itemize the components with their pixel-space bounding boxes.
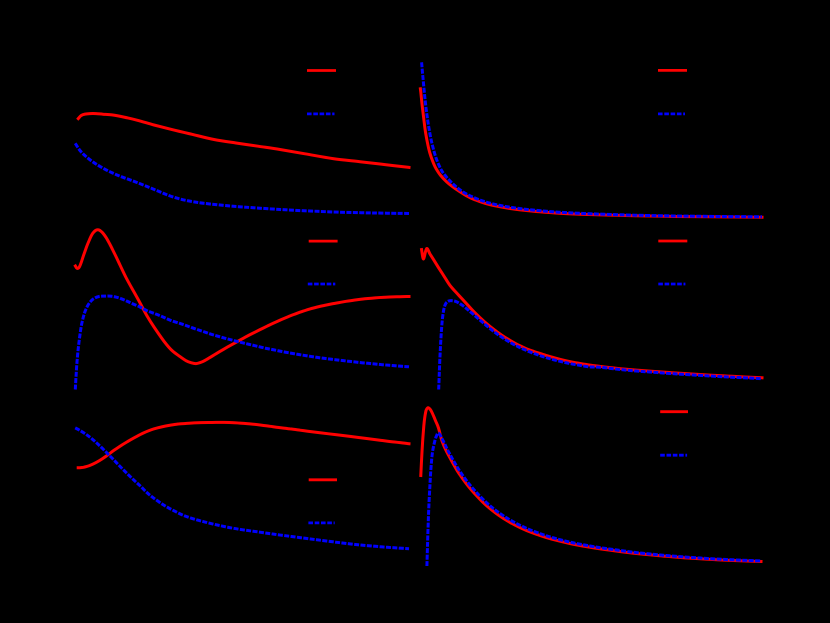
subplot (2,1) red curve [75,230,409,364]
subplot (2,1) legend blue line [308,283,336,286]
subplot (1,2) red curve [420,89,762,217]
subplot (1,1) blue curve [75,143,409,213]
subplot (1,1) red curve [78,114,409,168]
subplot (3,1) blue curve [75,428,409,549]
subplot (3,2) red curve [421,408,761,562]
subplot (2,1) blue curve [75,296,409,389]
subplot (3,2) blue curve [427,433,761,566]
subplot (2,2) legend red line [658,240,687,243]
subplot (2,2) red curve [422,249,762,378]
subplot (3,2) legend blue line [660,454,687,457]
subplot (1,2) legend red line [658,69,687,72]
subplot (2,1) legend red line [309,240,338,243]
subplot (3,1) legend red line [309,478,337,481]
subplot (1,1) legend blue line [307,113,335,116]
subplot (1,2) blue curve [422,62,762,217]
subplot (3,1) red curve [78,422,409,467]
subplot (2,2) legend blue line [658,283,685,286]
subplot (2,2) blue curve [439,301,762,390]
subplot (1,2) legend blue line [658,113,685,116]
subplot (3,1) legend blue line [308,522,334,525]
subplot (1,1) legend red line [307,69,336,72]
subplot (3,2) legend red line [660,410,688,413]
